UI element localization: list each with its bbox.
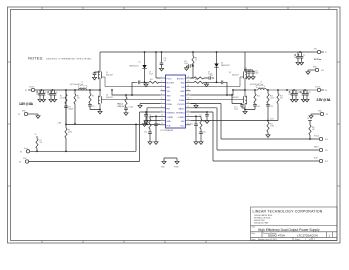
terminal E10 PGOOD [191, 104, 328, 142]
svg-text:PGND: PGND [167, 104, 173, 106]
svg-text:Si4410DY: Si4410DY [232, 97, 240, 99]
svg-text:Date:: Date: [252, 238, 257, 241]
svg-text:C29: C29 [270, 106, 273, 108]
resistor R5 comp [200, 119, 202, 129]
resistor R4 comp [149, 119, 151, 129]
border zone ticks right [337, 62, 340, 186]
svg-text:LTC1702ACGN: LTC1702ACGN [297, 234, 318, 238]
resistor R14 / capacitor C28 branch [245, 89, 260, 109]
svg-text:180μF: 180μF [36, 94, 40, 96]
svg-text:BG1: BG1 [167, 87, 171, 89]
capacitor C6 [40, 90, 46, 102]
svg-text:E9: E9 [326, 114, 328, 116]
svg-text:NOTES:: NOTES: [28, 56, 44, 61]
capacitor C7 [47, 90, 53, 102]
svg-text:Si4410DY: Si4410DY [106, 74, 114, 76]
svg-text:2.5V @ 5A: 2.5V @ 5A [317, 98, 332, 102]
svg-text:FAULT: FAULT [179, 107, 186, 110]
svg-text:E10: E10 [325, 139, 328, 141]
svg-text:PVCC: PVCC [167, 78, 173, 80]
svg-text:R5: R5 [92, 96, 94, 98]
node SW1 tap [125, 94, 127, 96]
svg-text:C26: C26 [300, 92, 303, 94]
svg-text:FB1: FB1 [167, 108, 170, 110]
svg-text:Run1: Run1 [24, 148, 28, 150]
svg-text:COMP1: COMP1 [167, 117, 174, 119]
capacitor C17 [231, 94, 245, 110]
resistor R6 snubber [118, 95, 128, 107]
capacitor C5 [36, 90, 42, 102]
svg-text:RUN: RUN [314, 158, 318, 160]
terminal E13 PGND IN [306, 67, 324, 75]
svg-text:E4: E4 [19, 162, 21, 164]
node SW2 [244, 89, 246, 91]
svg-text:C9: C9 [289, 92, 291, 94]
diode D1 MBR0520LT1 [130, 51, 147, 82]
svg-text:C21: C21 [158, 124, 161, 126]
svg-text:C27: C27 [308, 92, 311, 94]
svg-text:TG2: TG2 [181, 87, 185, 89]
svg-text:UNLESS OTHERWISE SPECIFIED: UNLESS OTHERWISE SPECIFIED [46, 59, 92, 61]
svg-text:18: 18 [188, 102, 190, 104]
ground below Q4 [244, 109, 246, 111]
wire SW1 to U1 [112, 90, 161, 95]
svg-text:180μF: 180μF [289, 94, 293, 96]
capacitor C9 [289, 90, 295, 102]
svg-text:R4: R4 [145, 121, 147, 123]
node VOUT2 junctions [286, 89, 306, 91]
svg-text:1.8V @ 8A: 1.8V @ 8A [19, 102, 34, 106]
title block date cell divider [293, 237, 312, 240]
terminal E9 GND2 [309, 111, 328, 119]
svg-text:24: 24 [188, 76, 190, 78]
svg-text:R3: R3 [68, 130, 70, 132]
svg-text:PGood: PGood [314, 136, 319, 138]
svg-text:100: 100 [77, 98, 80, 100]
svg-text:1.8V: 1.8V [58, 123, 62, 125]
svg-text:R1: R1 [40, 140, 42, 142]
svg-text:1.78K: 1.78K [270, 126, 274, 128]
resistor R1 [35, 134, 43, 152]
capacitor C11 soft start [144, 111, 154, 123]
svg-text:GND: GND [161, 167, 165, 169]
wire FB1 network [66, 90, 161, 124]
svg-text:2.2μF: 2.2μF [184, 63, 188, 65]
svg-text:E12: E12 [325, 161, 328, 163]
svg-text:LINEAR TECHNOLOGY CORPORATION: LINEAR TECHNOLOGY CORPORATION [253, 210, 323, 214]
svg-text:High Efficiency Dual Output Po: High Efficiency Dual Output Power Supply [258, 228, 320, 232]
svg-text:20: 20 [188, 93, 190, 95]
capacitor C26 [300, 90, 306, 102]
resistor R15 [277, 89, 283, 120]
svg-text:C15: C15 [164, 58, 167, 60]
inductor L2 [245, 86, 317, 90]
svg-text:R12: R12 [270, 124, 273, 126]
svg-text:5V Pwr: 5V Pwr [314, 59, 321, 61]
svg-text:C13: C13 [244, 68, 247, 70]
svg-text:0.1μF: 0.1μF [234, 109, 238, 111]
pin stubs right U1 [186, 78, 191, 125]
terminal E8 VOUT2 [315, 87, 327, 92]
svg-text:C21: C21 [92, 106, 95, 108]
svg-text:MBR0520LT1: MBR0520LT1 [221, 65, 230, 67]
svg-text:Q1: Q1 [106, 72, 108, 74]
svg-text:GND: GND [167, 121, 172, 123]
svg-text:PGND: PGND [179, 100, 185, 102]
svg-text:10: 10 [161, 115, 163, 117]
terminal E11 FAULT [191, 108, 328, 152]
terminal E2 GND1 [18, 111, 40, 119]
svg-text:R10: R10 [270, 96, 273, 98]
svg-text:10K: 10K [312, 129, 315, 131]
transistor Q3 [191, 70, 247, 90]
svg-text:5V: 5V [35, 134, 37, 136]
capacitor C21 comp [154, 120, 161, 144]
svg-text:BOOST1: BOOST1 [167, 83, 175, 85]
capacitor C23 snubber [118, 106, 134, 115]
capacitor C10 [293, 90, 300, 102]
svg-text:Monday, June 04, 2001: Monday, June 04, 2001 [258, 239, 277, 241]
svg-text:100: 100 [280, 98, 283, 100]
svg-text:C7: C7 [47, 92, 49, 94]
svg-text:C1: C1 [294, 55, 296, 57]
node VOUT1 junction dots [41, 89, 113, 91]
svg-text:Si4410DY: Si4410DY [232, 74, 240, 76]
wire FB2 network [191, 120, 279, 122]
capacitor C22 comp [199, 129, 206, 144]
transistor Q1 [99, 70, 161, 90]
resistor R4 [74, 89, 80, 125]
svg-text:C25: C25 [190, 124, 193, 126]
capacitor C1 input [294, 52, 300, 65]
resistor R10 [266, 89, 274, 121]
svg-text:1000pF: 1000pF [68, 109, 73, 111]
svg-text:R4: R4 [77, 96, 79, 98]
svg-text:E1: E1 [25, 90, 27, 92]
capacitor C3 boost [138, 81, 140, 85]
terminal E7 VIN 5V [314, 49, 327, 61]
svg-text:17: 17 [188, 106, 190, 108]
svg-text:R8: R8 [195, 58, 197, 60]
terminal E12 RUN2 [191, 112, 328, 163]
svg-text:E13: E13 [321, 70, 324, 72]
svg-text:Sheet: Sheet [295, 238, 300, 241]
svg-text:VCC: VCC [181, 125, 186, 127]
svg-text:FCB: FCB [167, 125, 172, 127]
svg-text:TG1: TG1 [167, 91, 171, 93]
svg-text:R6 2.2: R6 2.2 [118, 104, 123, 106]
svg-text:R12: R12 [150, 79, 153, 81]
wire BOOST1 with C3 [132, 82, 161, 95]
op-amp U1 LTC1702ACGN [161, 75, 186, 132]
svg-text:C16: C16 [184, 61, 187, 63]
svg-text:C5: C5 [36, 92, 38, 94]
diode D2 MBR0520LT1 [214, 51, 230, 82]
svg-text:10K: 10K [40, 142, 43, 144]
resistor R2 [60, 90, 67, 106]
svg-text:23: 23 [188, 81, 190, 83]
svg-text:R11: R11 [312, 127, 315, 129]
svg-text:10μF: 10μF [255, 73, 259, 75]
svg-text:VIN: VIN [314, 49, 318, 51]
svg-text:Si4410DY: Si4410DY [106, 97, 114, 99]
svg-text:22: 22 [188, 85, 190, 87]
resistor R12 boost [149, 81, 159, 83]
svg-text:FB2: FB2 [181, 121, 184, 123]
capacitor C4 boost [221, 81, 223, 85]
svg-text:SW2: SW2 [180, 96, 184, 98]
capacitor C16 VCC decouple [184, 51, 197, 78]
svg-text:408-434-0507 FAX: 408-434-0507 FAX [254, 221, 269, 224]
svg-text:C4: C4 [208, 72, 210, 74]
svg-text:MLT 4040-4R7 1μH: MLT 4040-4R7 1μH [250, 84, 263, 86]
transistor Q4 [191, 90, 247, 110]
svg-text:R5: R5 [203, 121, 205, 123]
svg-text:C28: C28 [257, 106, 260, 108]
svg-text:C8: C8 [56, 92, 58, 94]
svg-text:0.1μF: 0.1μF [149, 74, 153, 76]
svg-text:C30: C30 [210, 75, 213, 77]
border zone ticks bottom [42, 241, 206, 244]
svg-text:12: 12 [161, 123, 163, 125]
ground stub row2 left [144, 82, 148, 86]
svg-text:FCB: FCB [23, 158, 26, 160]
title block rev cell [327, 232, 333, 238]
svg-text:C20: C20 [144, 132, 147, 134]
svg-text:16: 16 [188, 110, 190, 112]
resistor R5A / capacitor C21 branch [88, 89, 100, 109]
svg-text:L1: L1 [81, 82, 83, 84]
capacitor C19 [64, 106, 73, 124]
node BOOST2/D2 junction [216, 81, 218, 83]
wire 5V top rail [100, 51, 317, 53]
capacitor C13 input [244, 68, 251, 79]
svg-text:Q2: Q2 [106, 95, 108, 97]
svg-text:21: 21 [188, 89, 190, 91]
ground PGND2 stub [191, 104, 199, 108]
svg-text:R2: R2 [60, 96, 62, 98]
pin numbers left [161, 76, 163, 125]
svg-text:2.2: 2.2 [195, 60, 197, 62]
capacitor C2 input [298, 52, 305, 65]
svg-text:BG2: BG2 [181, 83, 185, 85]
title block row line 2 [251, 231, 338, 233]
svg-text:15: 15 [188, 115, 190, 117]
svg-text:L2: L2 [260, 82, 262, 84]
svg-text:PGND: PGND [174, 167, 179, 169]
svg-text:1: 1 [314, 239, 315, 241]
capacitor C14 input [249, 69, 259, 79]
svg-text:22μF: 22μF [294, 57, 298, 59]
wire SW2 to U1 [191, 90, 246, 95]
compensation COMP2 network [191, 115, 202, 120]
svg-text:D1: D1 [139, 62, 141, 64]
svg-text:VOUT2: VOUT2 [315, 87, 320, 89]
svg-text:R15: R15 [280, 96, 283, 98]
svg-text:E11: E11 [325, 150, 328, 152]
title block row line 1 [251, 225, 338, 227]
svg-text:1: 1 [305, 239, 306, 241]
ground below Q2 [99, 109, 101, 111]
svg-text:1μF: 1μF [164, 60, 167, 62]
svg-text:C17: C17 [234, 107, 237, 109]
capacitor C20 comp [144, 129, 152, 144]
terminal E3 RUN1 [20, 124, 137, 154]
title block row line 3 [251, 236, 338, 238]
svg-text:11: 11 [161, 119, 163, 121]
svg-text:C22: C22 [203, 132, 206, 134]
resistor R13 boost [194, 81, 204, 83]
title block cell divider size [261, 232, 263, 238]
compensation COMP1 network [150, 115, 161, 120]
svg-text:C19: C19 [68, 107, 71, 109]
svg-text:Size:: Size: [252, 233, 256, 235]
svg-text:VOUT1: VOUT1 [29, 87, 34, 89]
resistor R3 feedback lower [58, 123, 72, 153]
svg-text:C3: C3 [149, 72, 151, 74]
svg-text:RUN/SS2: RUN/SS2 [176, 113, 184, 115]
pin stubs left U1 [161, 78, 166, 125]
svg-text:180μF: 180μF [47, 94, 51, 96]
svg-text:BOOST2: BOOST2 [177, 78, 185, 80]
ground stub row2 right [204, 82, 208, 86]
ground turret E6 PGND [174, 158, 179, 169]
ground turret E5 GND [161, 158, 177, 169]
ground PGND1 stub [138, 104, 161, 108]
svg-text:SW2: SW2 [180, 91, 184, 93]
svg-text:PGOOD: PGOOD [177, 104, 185, 106]
svg-text:1: 1 [329, 233, 331, 237]
svg-text:COMP2: COMP2 [178, 117, 185, 119]
svg-text:C23 .01: C23 .01 [118, 106, 124, 108]
svg-text:D2: D2 [221, 63, 223, 65]
terminal E1 VOUT1 [25, 87, 100, 92]
capacitor C8 [51, 90, 57, 102]
resistor R16 row1 right [191, 77, 215, 79]
svg-text:E3: E3 [20, 151, 22, 153]
svg-text:RUN/SS1: RUN/SS1 [167, 113, 175, 115]
node BOOST1/D1 junction [144, 81, 146, 83]
notes text [28, 56, 92, 61]
inductor L1 [79, 86, 88, 90]
svg-text:LTC1702ACGN: LTC1702ACGN [161, 129, 174, 132]
capacitor C12 soft start 2 [191, 111, 210, 123]
svg-text:C14: C14 [255, 71, 258, 73]
capacitor C27 [304, 90, 311, 102]
capacitor C15 PVCC decouple [155, 51, 166, 78]
svg-text:14: 14 [188, 119, 190, 121]
transistor Q2 [99, 90, 161, 110]
terminal E4 RUN1 [19, 112, 161, 164]
svg-text:E8: E8 [325, 90, 327, 92]
svg-text:Title:: Title: [252, 226, 256, 229]
svg-text:1.21K: 1.21K [60, 98, 64, 100]
pin numbers right [188, 76, 190, 125]
svg-text:2.49K: 2.49K [68, 132, 72, 134]
svg-text:5V: 5V [307, 118, 309, 120]
node 5V caps junction [244, 51, 301, 71]
svg-text:FAULT: FAULT [314, 146, 319, 149]
capacitor C18 gate [92, 72, 100, 80]
svg-text:0.01μF: 0.01μF [129, 107, 134, 109]
wire rail drop to Q3 drain [244, 52, 246, 70]
svg-text:MBR0520LT1: MBR0520LT1 [130, 66, 139, 68]
svg-text:MLT 4040-4R7 1μH: MLT 4040-4R7 1μH [70, 84, 83, 86]
svg-text:E2: E2 [18, 114, 20, 116]
title block outline [251, 207, 338, 241]
resistor R11 PGOOD pullup [307, 118, 315, 140]
svg-text:E7: E7 [325, 52, 327, 54]
svg-text:SW1: SW1 [167, 96, 171, 98]
svg-text:R14: R14 [257, 96, 260, 98]
wire BOOST2 with C4 [191, 82, 228, 95]
wire rail drop to Q1 drain [99, 52, 101, 70]
svg-text:SW1: SW1 [167, 100, 171, 102]
svg-text:Q3: Q3 [229, 72, 231, 74]
svg-text:1000pF: 1000pF [149, 117, 154, 119]
ground GND pin stub [142, 121, 160, 127]
capacitor C25 comp [190, 120, 198, 144]
svg-text:1.21K: 1.21K [270, 98, 274, 100]
border zone ticks left [8, 62, 11, 186]
svg-text:19: 19 [188, 98, 190, 100]
svg-text:DEMO 473A: DEMO 473A [268, 234, 285, 238]
resistor R12 to ground [266, 119, 274, 138]
svg-text:C2: C2 [303, 55, 305, 57]
